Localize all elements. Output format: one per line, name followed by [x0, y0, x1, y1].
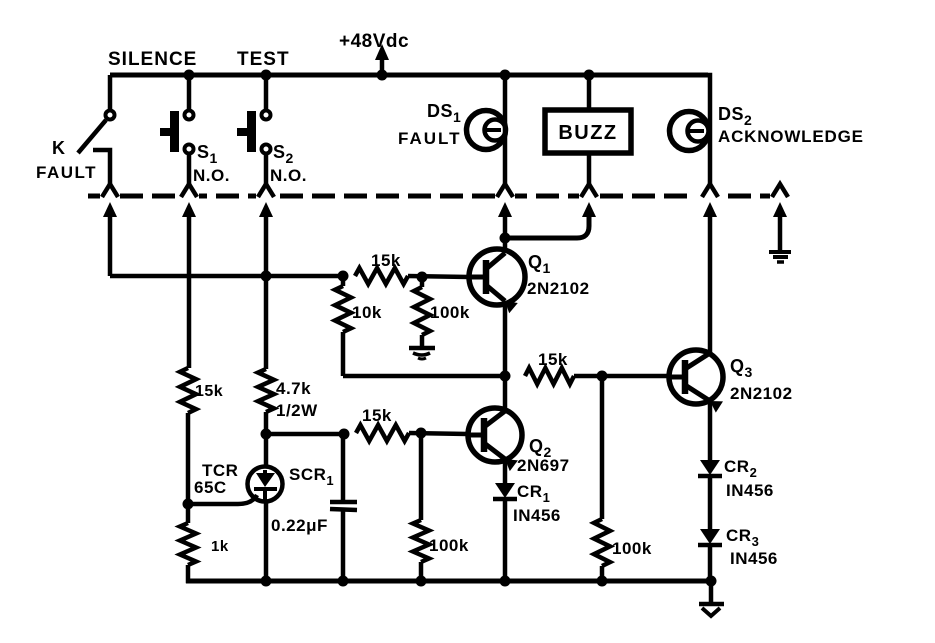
- wire arrow terminal (S2): [259, 202, 273, 217]
- svg-text:1/2W: 1/2W: [276, 401, 318, 420]
- node: junction SCR1 gate: [183, 499, 194, 510]
- wire SCR1 gate: [188, 495, 257, 504]
- wire bottom common rail: [186, 579, 716, 584]
- switch K (FAULT relay contact): [108, 75, 113, 111]
- svg-text:15k: 15k: [362, 406, 392, 425]
- transistor Q3 2N2102: [669, 350, 723, 404]
- svg-text:+48Vdc: +48Vdc: [339, 31, 409, 52]
- resistor 100k (Q2 base to common): [419, 433, 424, 520]
- resistor 100k (Q1 base to ground): [420, 277, 425, 287]
- wire arrow terminal (K fault input): [103, 202, 117, 217]
- svg-text:ACKNOWLEDGE: ACKNOWLEDGE: [718, 127, 864, 146]
- svg-text:CR2: CR2: [724, 457, 757, 480]
- wire arrow terminal (BUZZ drive): [582, 202, 596, 217]
- svg-text:IN456: IN456: [726, 481, 774, 500]
- wire fork terminal (ground return): [772, 184, 788, 197]
- wire K-fault input to Q1 base node: [110, 274, 343, 279]
- resistor 4.7k 1/2W: [258, 369, 274, 412]
- svg-text:N.O.: N.O.: [193, 166, 230, 185]
- wire arrow terminal grounded: [773, 202, 787, 217]
- svg-text:CR1: CR1: [517, 482, 550, 505]
- wire fork terminal (S2): [258, 184, 274, 197]
- switch S1 pushbutton N.O.: [187, 75, 192, 111]
- svg-text:10k: 10k: [352, 303, 382, 322]
- transistor Q2 2N697: [468, 408, 522, 462]
- wire fork terminal (BUZZ): [581, 184, 597, 197]
- node: junction S2 branch on top rail: [261, 70, 272, 81]
- svg-text:1k: 1k: [211, 538, 229, 555]
- svg-text:15k: 15k: [371, 251, 401, 270]
- svg-text:2N697: 2N697: [517, 456, 570, 475]
- wire arrow terminal (DS2 / Q3 collector): [703, 202, 717, 217]
- node: junction DS1 branch on top rail: [500, 70, 511, 81]
- diode CR3 1N456: [700, 529, 720, 544]
- node: junction cap / common: [338, 576, 349, 587]
- resistor 15k (Q3 base): [525, 368, 574, 384]
- svg-text:DS1: DS1: [427, 101, 461, 125]
- svg-text:65C: 65C: [194, 478, 227, 497]
- svg-text:0.22μF: 0.22μF: [271, 516, 328, 535]
- svg-text:2N2102: 2N2102: [527, 279, 590, 298]
- resistor 15k (Q1 base): [355, 268, 408, 284]
- capacitor 0.22uF: [341, 434, 346, 501]
- svg-text:Q1: Q1: [528, 252, 551, 276]
- wire Q3 emitter: [708, 401, 713, 460]
- svg-text:CR3: CR3: [726, 526, 759, 549]
- node: junction 100k Q3 / common: [597, 576, 608, 587]
- svg-text:DS2: DS2: [718, 104, 752, 128]
- switch S2 pushbutton N.O.: [264, 75, 269, 111]
- svg-text:4.7k: 4.7k: [276, 379, 311, 398]
- lamp DS1 FAULT: [467, 111, 506, 150]
- svg-text:15k: 15k: [195, 383, 223, 400]
- svg-text:IN456: IN456: [513, 506, 561, 525]
- wire Q2 base network: [266, 432, 344, 437]
- node: junction +48Vdc arrow on top rail: [377, 70, 388, 81]
- wire fork terminal (K): [102, 184, 118, 197]
- svg-text:FAULT: FAULT: [398, 129, 462, 148]
- resistor 100k (Q3 base to common): [600, 376, 605, 519]
- svg-text:SCR1: SCR1: [289, 465, 334, 488]
- svg-text:FAULT: FAULT: [36, 163, 97, 182]
- wire 10k bottom to emitter node: [343, 374, 505, 379]
- svg-text:K: K: [52, 138, 66, 158]
- resistor 15k (left, K circuit): [180, 368, 196, 413]
- wire arrow terminal (DS1 / Q1 collector): [498, 202, 512, 217]
- svg-text:100k: 100k: [430, 303, 470, 322]
- transistor Q1 2N2102: [469, 249, 525, 305]
- wire DS1 branch: [503, 75, 508, 184]
- node: junction CR1 / common: [500, 576, 511, 587]
- svg-text:100k: 100k: [429, 536, 469, 555]
- svg-text:S2: S2: [273, 142, 294, 166]
- wire SCR1 cathode to common: [264, 501, 269, 581]
- wire Q2 emitter: [503, 459, 508, 483]
- resistor 15k (Q2 base): [356, 425, 409, 441]
- wire fork terminal (DS2): [702, 184, 718, 197]
- wire fork terminal (S1): [181, 184, 197, 197]
- ground (right terminal): [769, 250, 791, 254]
- wire: +48V top supply rail: [110, 73, 708, 78]
- wire Q1 emitter: [503, 301, 508, 376]
- svg-text:Q3: Q3: [730, 356, 753, 380]
- power +48Vdc supply arrow: [380, 54, 385, 73]
- svg-text:IN456: IN456: [730, 549, 778, 568]
- diode CR1 1N456: [495, 483, 515, 498]
- node: junction 100k / Q2 base: [416, 428, 427, 439]
- svg-text:N.O.: N.O.: [270, 166, 307, 185]
- node: junction BUZZ branch on top rail: [584, 70, 595, 81]
- wire fork terminal (DS1): [497, 184, 513, 197]
- node: junction CR3 / common / ground: [706, 576, 717, 587]
- node: junction 10k top: [338, 271, 349, 282]
- resistor 1k: [186, 504, 191, 523]
- resistor 10k: [341, 276, 346, 286]
- node: junction SCR cathode / common: [261, 576, 272, 587]
- lamp DS2 ACKNOWLEDGE: [670, 112, 709, 151]
- wire arrow terminal (S1): [182, 202, 196, 217]
- node: junction 100k top / Q3 base: [597, 371, 608, 382]
- node: junction 4.7k / Q2 base wire: [261, 429, 272, 440]
- node: junction cap top / Q2 base wire: [339, 429, 350, 440]
- svg-text:BUZZ: BUZZ: [558, 122, 617, 144]
- node: junction S1 branch on top rail: [184, 70, 195, 81]
- node: junction Q1 collector / buzz: [500, 233, 511, 244]
- svg-text:S1: S1: [197, 142, 218, 166]
- wire DS2 branch: [708, 75, 710, 184]
- dashed terminal boundary line: [88, 194, 770, 199]
- buzzer BUZZ: [587, 75, 592, 112]
- node: junction Q1 emitter / Q2 collector: [500, 371, 511, 382]
- node: junction S2 column crosses base wire: [261, 271, 272, 282]
- svg-text:SILENCE: SILENCE: [108, 49, 197, 70]
- SCR1 TCR 65C: [264, 434, 269, 467]
- svg-text:15k: 15k: [538, 350, 568, 369]
- wire Q2 collector: [503, 376, 508, 412]
- ground (100k upper): [409, 346, 435, 351]
- node: junction 100k top / Q1 base: [417, 272, 428, 283]
- svg-text:TEST: TEST: [237, 49, 290, 70]
- svg-text:100k: 100k: [612, 539, 652, 558]
- svg-text:2N2102: 2N2102: [730, 384, 793, 403]
- node: junction 100k / common: [416, 576, 427, 587]
- ground (main, bottom right): [709, 581, 714, 602]
- diode CR2 1N456: [700, 460, 720, 475]
